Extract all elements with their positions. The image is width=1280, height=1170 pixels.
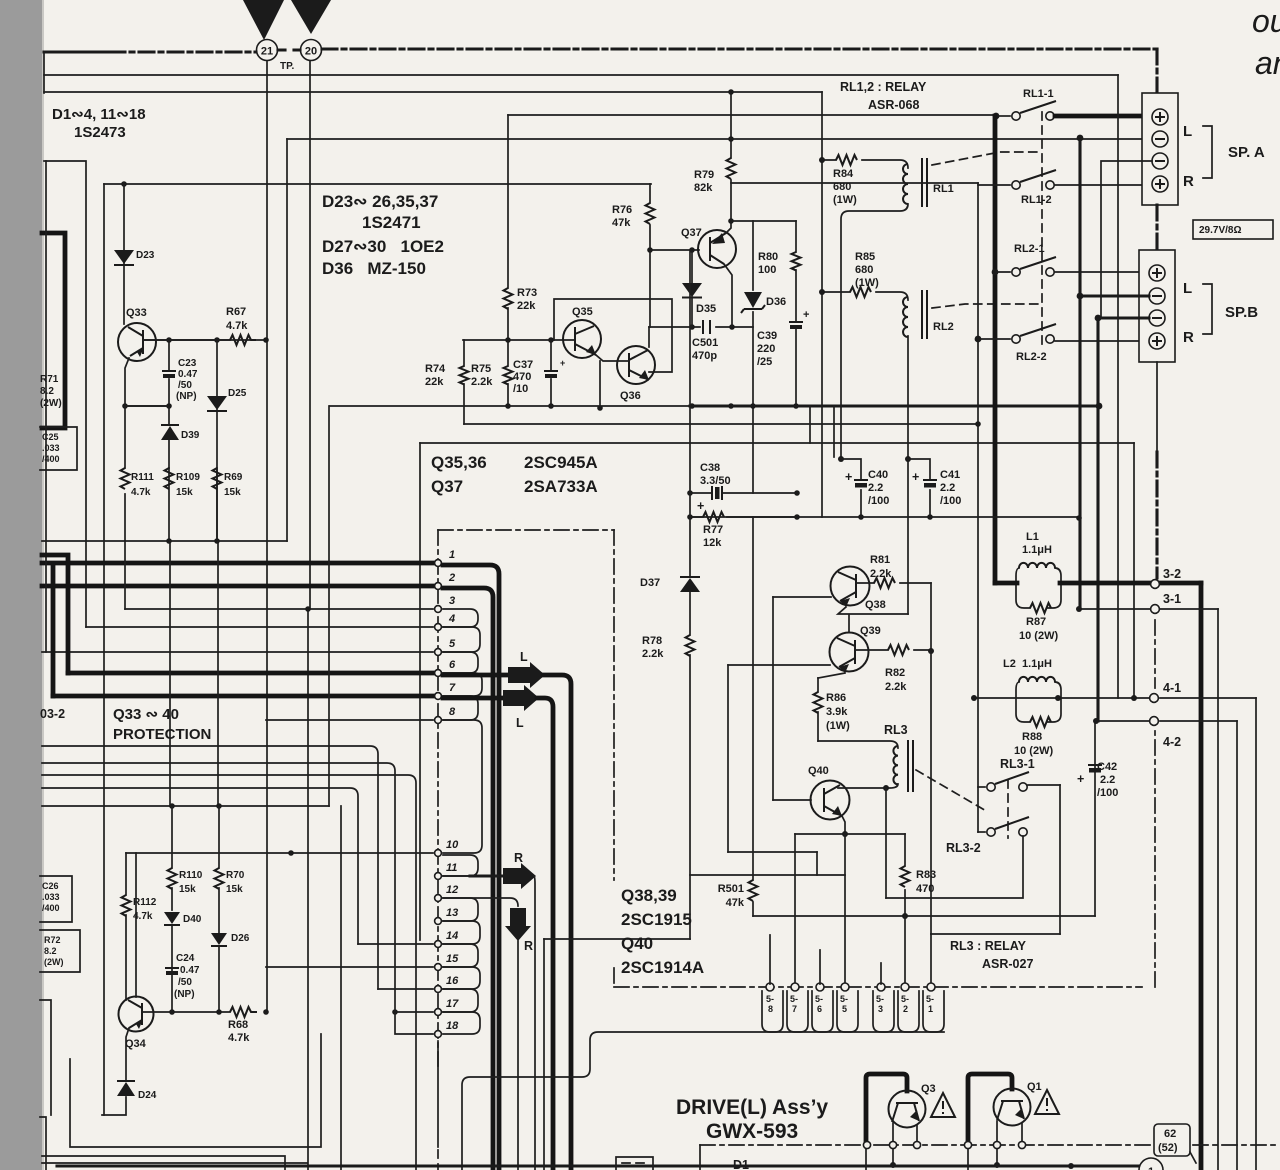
svg-text:2.2k: 2.2k: [885, 681, 907, 693]
svg-text:D36: D36: [766, 296, 786, 308]
svg-text:2: 2: [448, 572, 455, 584]
assembly boundary right x1153: [1154, 730, 1156, 987]
svg-text:R501: R501: [718, 883, 744, 895]
bottom left nest corner B: [42, 1156, 285, 1170]
svg-text:R77: R77: [703, 524, 723, 536]
svg-text:2.2: 2.2: [940, 482, 955, 494]
wire Q40 base: [773, 799, 811, 801]
svg-text:Q35,36: Q35,36: [431, 453, 487, 472]
svg-text:5: 5: [449, 638, 456, 650]
svg-text:20: 20: [305, 46, 317, 58]
svg-text:8.2: 8.2: [44, 946, 57, 956]
wire stub x834: [833, 406, 835, 457]
svg-text:Q40: Q40: [808, 765, 829, 777]
svg-text:C41: C41: [940, 469, 960, 481]
svg-text:47k: 47k: [612, 217, 631, 229]
wire RL3 coil bottom: [838, 784, 898, 788]
speaker terminal block SP.B: [1139, 250, 1175, 362]
diode D26: [211, 933, 227, 945]
terminal 3-1: [1151, 605, 1160, 614]
resistor R79: [730, 92, 732, 221]
capacitor C41: [908, 459, 930, 517]
resistor R88: [1030, 717, 1051, 727]
svg-text:8: 8: [768, 1004, 773, 1014]
svg-text:14: 14: [446, 930, 458, 942]
terminal + A-L: [1152, 109, 1168, 125]
svg-text:DRIVE(L) Ass’y: DRIVE(L) Ass’y: [676, 1096, 828, 1119]
svg-text:1S2471: 1S2471: [362, 213, 421, 232]
svg-text:680: 680: [855, 264, 873, 276]
wire x542 down: [543, 939, 545, 1170]
svg-text:ASR-068: ASR-068: [868, 98, 919, 112]
chain pins drive: [863, 1141, 870, 1148]
svg-text:/400: /400: [42, 454, 60, 464]
svg-text:1: 1: [1148, 1166, 1154, 1170]
diode D40: [164, 912, 180, 924]
resistor R77: [690, 516, 797, 518]
svg-text:+: +: [560, 358, 565, 368]
wire box right edge x287: [286, 139, 288, 541]
bottom small box fragment: [616, 1157, 653, 1170]
svg-text:100: 100: [758, 264, 776, 276]
svg-text:C37: C37: [513, 359, 533, 371]
svg-text:5-: 5-: [790, 994, 798, 1004]
svg-text:3.3/50: 3.3/50: [700, 475, 731, 487]
svg-text:Q35: Q35: [572, 306, 593, 318]
pin 1: [42, 561, 433, 566]
svg-text:13: 13: [446, 907, 458, 919]
pin 3: [125, 608, 433, 610]
registration triangle mark left: [243, 0, 284, 40]
svg-text:/50: /50: [178, 380, 192, 391]
wire Q35 emitter to Q36 base: [596, 355, 629, 408]
svg-text:RL3-2: RL3-2: [946, 841, 981, 855]
relay coil RL2: [903, 297, 908, 337]
wire RL1 coil bottom: [841, 204, 908, 459]
svg-text:/10: /10: [513, 383, 528, 395]
wire Q35 collector loop: [554, 299, 672, 372]
svg-text:/100: /100: [940, 495, 961, 507]
junction dot base-D25: [214, 337, 220, 343]
junction dot R79 bottom: [728, 218, 734, 224]
svg-text:R74: R74: [425, 363, 446, 375]
thick line B-R minus: [1095, 315, 1102, 322]
pin 13: [435, 918, 442, 925]
svg-text:R109: R109: [176, 472, 200, 483]
svg-text:2: 2: [903, 1004, 908, 1014]
wire x773 down: [772, 597, 774, 800]
wire vertical x420 from y182? none; vertical x508 R73: [507, 115, 509, 406]
left edge corner x46: [40, 1117, 46, 1170]
warning triangle Q1: [1035, 1090, 1059, 1114]
svg-text:6: 6: [817, 1004, 822, 1014]
junction dot C41 feed: [905, 456, 911, 462]
svg-text:1: 1: [928, 1004, 933, 1014]
svg-text:D1: D1: [733, 1158, 749, 1170]
thick vertical x1080: [1078, 138, 1081, 609]
common return wire under 5-x pins: [462, 1032, 944, 1170]
svg-text:12k: 12k: [703, 537, 722, 549]
svg-text:R73: R73: [517, 287, 537, 299]
pin 5-8 box: [762, 991, 783, 1032]
svg-text:15k: 15k: [224, 487, 241, 498]
svg-text:2SC1914A: 2SC1914A: [621, 958, 704, 977]
wire x753 down from y221: [752, 221, 754, 493]
diode D23: [114, 250, 134, 264]
svg-text:470p: 470p: [692, 350, 717, 362]
pins 5-3 5-2 5-1: [877, 983, 885, 991]
svg-text:C26: C26: [42, 881, 59, 891]
wire Q40 emitter: [842, 816, 845, 834]
svg-text:7: 7: [449, 682, 456, 694]
wire emitter rail y221: [731, 220, 796, 222]
svg-text:R85: R85: [855, 251, 875, 263]
wire D23 branch: [123, 184, 125, 324]
terminal - B-L: [1149, 288, 1165, 304]
resistor R81: [856, 582, 931, 584]
svg-text:0.47: 0.47: [178, 369, 198, 380]
svg-text:D36 MZ-150: D36 MZ-150: [322, 259, 426, 278]
svg-text:L1: L1: [1026, 531, 1039, 543]
junction dot C23 bottom: [166, 403, 172, 409]
svg-text:SP.B: SP.B: [1225, 304, 1258, 321]
assembly boundary dash-dot top: [438, 529, 614, 531]
wire corner x104: [103, 184, 105, 1115]
wire x795 to pin 5-7: [794, 834, 796, 984]
zener diode D36: [744, 292, 762, 308]
left fragment R72: [40, 930, 80, 972]
wire y875 R78 to Q40: [690, 874, 845, 876]
svg-text:47k: 47k: [726, 897, 745, 909]
pin 14: [358, 943, 433, 945]
wire RL1-2 feed y183: [731, 182, 978, 184]
thick vertical x1099: [1096, 318, 1099, 721]
svg-text:D39: D39: [181, 430, 200, 441]
junction dots bus y406: [689, 403, 695, 409]
transistor Q3 thick feed: [866, 1074, 907, 1145]
svg-text:Q34: Q34: [125, 1038, 147, 1050]
svg-text:2SA733A: 2SA733A: [524, 477, 598, 496]
pin 5-3 box: [873, 991, 894, 1032]
wire RL3-2 right down: [886, 836, 1023, 898]
transistor Q3: [889, 1091, 926, 1128]
wire y916 long: [753, 915, 1095, 917]
svg-text:L: L: [516, 716, 524, 730]
corner x327 to bus406: [328, 406, 330, 806]
svg-text:R76: R76: [612, 204, 632, 216]
wire RL2 coil bottom down: [907, 336, 909, 614]
junction dot R85 left: [819, 289, 825, 295]
svg-text:220: 220: [757, 343, 775, 355]
test point circle 20: [301, 40, 322, 61]
wire x978 long vertical: [977, 183, 979, 832]
svg-text:RL3 : RELAY: RL3 : RELAY: [950, 939, 1027, 953]
speaker terminal block SP.A: [1142, 93, 1178, 205]
svg-text:6: 6: [449, 659, 456, 671]
transistor Q1: [994, 1089, 1031, 1126]
warning triangle Q3: [931, 1093, 955, 1117]
wire relay chain y139: [287, 138, 1152, 140]
svg-text:D23: D23: [136, 250, 155, 261]
svg-text:17: 17: [446, 998, 459, 1010]
svg-text:0.47: 0.47: [180, 965, 200, 976]
resistor R501: [752, 517, 754, 916]
svg-text:D23∾ 26,35,37: D23∾ 26,35,37: [322, 192, 438, 211]
svg-text:an: an: [1255, 45, 1280, 81]
svg-text:4: 4: [448, 613, 455, 625]
svg-text:C23: C23: [178, 358, 197, 369]
terminal 3-2: [1151, 580, 1160, 589]
dashed link RL3: [916, 770, 988, 812]
thick wire L1 row 3-2: [995, 581, 1017, 586]
pin 5-6 box: [812, 991, 833, 1032]
resistor R68: [230, 1007, 257, 1017]
capacitor C40: [841, 459, 861, 517]
diode D35: [691, 251, 693, 327]
svg-text:3: 3: [449, 595, 455, 607]
thick vertical x995: [993, 116, 998, 583]
resistor R74: [463, 340, 465, 424]
wire x728 down: [727, 665, 729, 852]
feeder wire pin14: [42, 788, 358, 944]
svg-text:TP.: TP.: [280, 61, 294, 72]
svg-text:5-: 5-: [876, 994, 884, 1004]
pin 8: [266, 719, 433, 721]
transistor Q33: [118, 323, 156, 361]
pin 12: [435, 895, 442, 902]
pin 5-7 box: [787, 991, 808, 1032]
wire x905 to pin 5-2: [904, 916, 906, 984]
bottom left nest corner A: [70, 1034, 321, 1147]
junction dot R75 bus: [505, 403, 511, 409]
vertical x1118: [1117, 75, 1119, 698]
vertical x1134: [1133, 443, 1135, 698]
resistor R82: [855, 649, 931, 651]
Q34 base row: [142, 1011, 230, 1013]
wire y918 right corner: [1094, 721, 1096, 916]
svg-text:22k: 22k: [425, 376, 444, 388]
terminal - B-R: [1149, 310, 1165, 326]
svg-text:L: L: [1183, 280, 1192, 297]
left fragment C26 box: [40, 876, 72, 922]
svg-text:Q33: Q33: [126, 307, 147, 319]
terminal + A-R: [1152, 176, 1168, 192]
svg-text:1.1μH: 1.1μH: [1022, 544, 1052, 556]
vertical x1256: [1255, 698, 1257, 1170]
svg-text:Q39: Q39: [860, 625, 881, 637]
resistor R69: [216, 468, 218, 541]
terminal + B-L: [1149, 265, 1165, 281]
chain between 3-1 and 4-1: [1154, 620, 1156, 688]
dashed contact linkage vertical: [1041, 112, 1043, 345]
svg-text:(1W): (1W): [826, 720, 850, 732]
junction dot RL3-Q40: [883, 785, 889, 791]
pin 12 arrow R down: [443, 898, 518, 906]
svg-text:18: 18: [446, 1020, 459, 1032]
svg-text:Q38,39: Q38,39: [621, 886, 677, 905]
pin 17: [395, 1011, 433, 1013]
wire relay drive rail y115: [508, 114, 993, 116]
svg-text:(52): (52): [1158, 1142, 1178, 1154]
capacitor C501: [703, 320, 710, 334]
pin 15: [266, 966, 433, 968]
bottom border thick: [57, 1164, 1143, 1167]
chain line right corner going down: [1155, 49, 1158, 93]
thick arrow L pin6: [443, 673, 510, 678]
svg-text:10 (2W): 10 (2W): [1019, 630, 1058, 642]
resistor R76: [649, 184, 651, 250]
left fragment box C25: [40, 427, 77, 470]
transistor Q40: [811, 781, 850, 820]
registration triangle mark right: [291, 0, 331, 34]
svg-text:D35: D35: [696, 303, 716, 315]
capacitor C37: [550, 340, 552, 406]
junction dot C501-D35: [689, 324, 695, 330]
wire y806 R110 rail: [42, 805, 329, 807]
dashed link RL2: [932, 304, 1042, 308]
junction dot base-C23: [166, 337, 172, 343]
resistor R84: [822, 160, 908, 168]
svg-text:2SC945A: 2SC945A: [524, 453, 598, 472]
thick line B-L minus: [1077, 293, 1084, 300]
vertical x420: [419, 443, 421, 940]
svg-text:4-1: 4-1: [1163, 681, 1181, 695]
pin 11: [435, 873, 442, 880]
pin 5-2 box: [898, 991, 919, 1032]
svg-text:(1W): (1W): [855, 277, 879, 289]
junction dot R81 R82: [928, 648, 934, 654]
feeder wire pin16: [42, 746, 378, 989]
svg-text:C38: C38: [700, 462, 720, 474]
svg-text:R84: R84: [833, 168, 854, 180]
svg-text:C39: C39: [757, 330, 777, 342]
bus ground row y541: [42, 540, 287, 542]
svg-text:L: L: [1183, 123, 1192, 140]
svg-text:C42: C42: [1097, 761, 1117, 773]
svg-text:D27∾30 1OE2: D27∾30 1OE2: [322, 237, 444, 256]
svg-text:2.2: 2.2: [1100, 774, 1115, 786]
pin 5-5 box: [837, 991, 858, 1032]
svg-text:5-: 5-: [840, 994, 848, 1004]
pin 6 feeder thick: [42, 555, 68, 673]
svg-text:12: 12: [446, 884, 458, 896]
svg-text:2.2k: 2.2k: [471, 376, 493, 388]
svg-text:R75: R75: [471, 363, 491, 375]
svg-text:R: R: [514, 851, 523, 865]
svg-text:R: R: [1183, 173, 1194, 190]
svg-text:470: 470: [513, 371, 531, 383]
wire C501 row y327: [649, 326, 753, 328]
diode D25: [216, 340, 218, 541]
junction dot R79 top: [728, 136, 734, 142]
left clipped thick box: [42, 233, 65, 428]
svg-text:680: 680: [833, 181, 851, 193]
svg-text:RL3: RL3: [884, 723, 908, 737]
junction dot Q40 emitter: [842, 831, 848, 837]
pin 5-1 box: [923, 991, 944, 1032]
bus wire y74: [44, 74, 1118, 76]
wire Q36 collector up: [648, 327, 650, 347]
terminal 4-1: [1150, 694, 1159, 703]
wire Q37 emitter up: [726, 221, 731, 233]
svg-text:3: 3: [878, 1004, 883, 1014]
junction dot C37 bus: [548, 403, 554, 409]
svg-text:R67: R67: [226, 306, 246, 318]
junction dot D23 top: [121, 181, 127, 187]
pin 7: [53, 694, 433, 699]
svg-text:Q36: Q36: [620, 390, 641, 402]
bus y424: [464, 423, 977, 425]
svg-text:15: 15: [446, 953, 459, 965]
svg-text:5-: 5-: [926, 994, 934, 1004]
bottom left nest corner C: [42, 1162, 307, 1164]
junction dot y424 x977: [975, 421, 981, 427]
pin 4: [86, 626, 433, 628]
wire y852: [728, 851, 817, 853]
svg-text:R72: R72: [44, 935, 61, 945]
resistor R112: [125, 853, 127, 1000]
wire Q35 base row y340: [143, 339, 575, 341]
svg-text:4.7k: 4.7k: [228, 1032, 250, 1044]
wire D23 feed y184: [104, 183, 651, 185]
wire stub x810: [809, 406, 811, 443]
junction dot R73 base: [505, 337, 511, 343]
svg-text:D25: D25: [228, 388, 247, 399]
pin 1 thick bracket down: [443, 565, 499, 1170]
pins 5-8..5-5: [766, 983, 774, 991]
wire Q38 base: [773, 596, 831, 598]
left fragment box bottom: [40, 1000, 51, 1115]
junction dot C38 left: [687, 490, 693, 496]
svg-text:R71: R71: [40, 374, 59, 385]
svg-text:C40: C40: [868, 469, 888, 481]
svg-text:R79: R79: [694, 169, 714, 181]
pin 5 feeder x46: [45, 161, 47, 652]
test point circle 21: [257, 40, 278, 61]
junction dot emitter row: [122, 403, 128, 409]
label 62 (52): [1154, 1124, 1190, 1156]
resistor R75: [504, 366, 513, 384]
resistor R111: [124, 406, 126, 541]
junction dot C40 feed: [838, 456, 844, 462]
wire Q37 base row: [650, 250, 699, 327]
svg-text:/100: /100: [868, 495, 889, 507]
circled 1 bottom: [1139, 1158, 1163, 1170]
svg-text:L2 1.1μH: L2 1.1μH: [1003, 658, 1052, 670]
svg-text:22k: 22k: [517, 300, 536, 312]
transistor Q1 thick feed: [968, 1074, 1012, 1145]
wire y934: [931, 933, 1060, 935]
svg-text:2SC1915: 2SC1915: [621, 910, 692, 929]
junction dot R79 y92: [728, 89, 734, 95]
svg-text:R: R: [524, 939, 533, 953]
relay coil RL1: [903, 164, 908, 204]
wire R69 column lower: [217, 541, 219, 806]
svg-text:82k: 82k: [694, 182, 713, 194]
assembly boundary right vertical x614: [613, 530, 615, 880]
transistor Q39: [830, 633, 869, 672]
terminal 4-2: [1150, 717, 1159, 726]
pin 2 thick bracket down: [443, 588, 493, 1170]
svg-text:.033: .033: [42, 443, 60, 453]
svg-text:R70: R70: [226, 870, 245, 881]
wire y834: [795, 833, 905, 835]
svg-text:5-: 5-: [766, 994, 774, 1004]
wire Q37 collector down: [724, 264, 732, 327]
wire y939 R78 tail: [544, 938, 690, 940]
svg-text:R111: R111: [131, 472, 154, 483]
svg-text:1: 1: [449, 549, 455, 561]
